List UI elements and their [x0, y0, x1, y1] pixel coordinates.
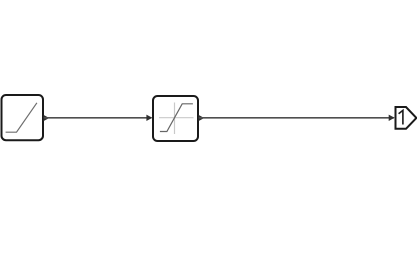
arrowhead into outport: [389, 115, 395, 121]
wire rate limiter to saturation: [44, 117, 152, 119]
outport 1 label: [399, 110, 403, 124]
saturation icon vertical axis: [174, 103, 176, 135]
saturation icon horizontal axis: [159, 117, 194, 119]
rate limiter output port marker: [44, 115, 50, 121]
arrowhead into saturation: [146, 115, 152, 121]
rate limiter block body: [2, 95, 44, 140]
saturation output port marker: [199, 115, 205, 121]
saturation icon curve: [160, 104, 193, 132]
saturation block body: [153, 96, 198, 141]
rate limiter icon curve: [6, 103, 37, 132]
outport 1 body: [396, 107, 417, 129]
wire saturation to outport: [199, 117, 394, 119]
